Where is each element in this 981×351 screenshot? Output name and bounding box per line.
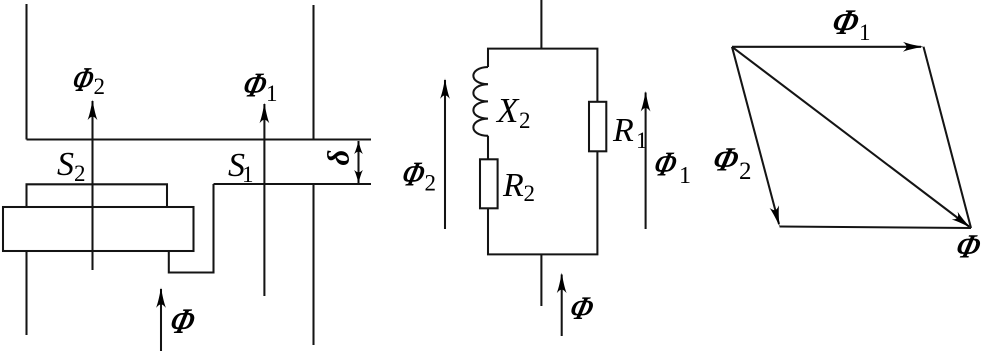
left pole piece S2 top <box>27 184 168 207</box>
node phi2 label left <box>68 60 105 99</box>
right core lower limb <box>312 184 314 345</box>
wire flux arrow phi1 left <box>260 103 270 296</box>
svg-text:Φ: Φ <box>566 291 598 327</box>
svg-text:R: R <box>502 167 524 204</box>
svg-text:2: 2 <box>739 158 752 185</box>
node R1 label <box>612 112 648 153</box>
node phi2 label phasor <box>709 141 752 185</box>
wire phasor phi resultant vector <box>732 47 974 232</box>
node S2 label <box>57 146 86 186</box>
svg-text:δ: δ <box>321 150 356 166</box>
node X2 label <box>495 91 531 133</box>
wire flux arrow phi bottom left <box>156 287 166 351</box>
wire phasor phi1 vector <box>732 42 924 52</box>
resistor R1 <box>589 102 606 152</box>
shading ring <box>3 207 194 251</box>
svg-text:1: 1 <box>242 162 254 187</box>
svg-text:1: 1 <box>266 81 278 106</box>
svg-text:Φ: Φ <box>709 141 743 178</box>
svg-text:X: X <box>495 91 520 130</box>
svg-text:S: S <box>57 146 74 183</box>
svg-text:2: 2 <box>94 74 106 99</box>
wire bottom lead <box>540 254 542 306</box>
node phi1 label phasor <box>828 2 871 45</box>
svg-text:2: 2 <box>519 108 531 133</box>
node phi2 label middle <box>398 154 436 195</box>
svg-text:Φ: Φ <box>166 301 200 341</box>
svg-text:Φ: Φ <box>952 228 981 265</box>
wire flux arrow phi middle <box>557 273 567 336</box>
wire circuit box <box>488 49 597 255</box>
left core upper-left limb <box>25 4 27 140</box>
svg-text:2: 2 <box>524 181 536 206</box>
node phi1 label middle <box>650 144 691 189</box>
wire yoke bottom / gap top edge <box>27 138 372 140</box>
wire top lead <box>540 0 542 49</box>
wire parallelogram bottom side <box>780 227 972 229</box>
svg-text:2: 2 <box>74 161 86 186</box>
wire flux arrow phi2 middle <box>440 78 450 229</box>
svg-text:R: R <box>612 112 634 149</box>
pole step under ring <box>169 184 214 273</box>
svg-text:1: 1 <box>859 20 871 45</box>
resistor R2 <box>480 159 498 208</box>
svg-text:Φ: Φ <box>650 144 682 183</box>
node delta air gap arrow <box>354 141 363 184</box>
node S1 label <box>228 147 254 187</box>
left core upper-right limb <box>312 5 314 140</box>
wire flux arrow phi2 left <box>88 100 98 270</box>
node R2 label <box>502 167 535 206</box>
left core lower limb <box>25 251 27 335</box>
wire flux arrow phi1 middle <box>641 91 651 229</box>
wire phasor phi2 vector <box>732 47 784 228</box>
svg-text:2: 2 <box>425 171 437 196</box>
svg-text:1: 1 <box>679 163 691 189</box>
inductor X2 <box>473 67 488 136</box>
wire parallelogram right side <box>924 47 972 228</box>
wire gap bottom / right pole face <box>214 183 372 185</box>
node phi1 label left <box>239 65 278 106</box>
